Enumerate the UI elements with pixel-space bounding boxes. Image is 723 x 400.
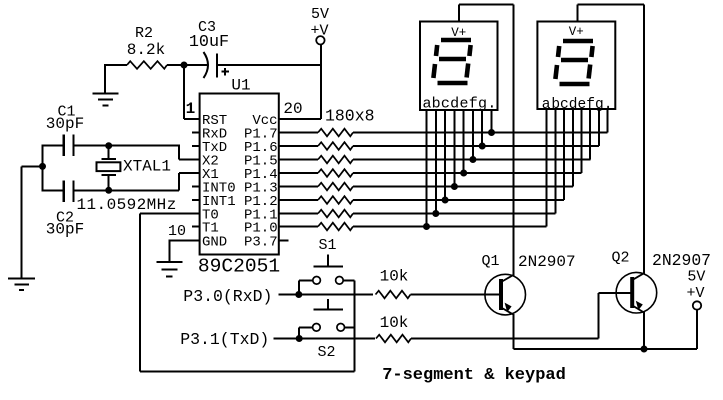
power terminal 5V bottom: [686, 269, 705, 310]
wire 5V to Vcc: [320, 45, 322, 120]
wire R2 left lead: [104, 64, 127, 66]
node junction f1: [469, 156, 476, 163]
svg-text:180x8: 180x8: [325, 107, 375, 126]
svg-text:10uF: 10uF: [189, 33, 229, 52]
svg-text:89C2051: 89C2051: [198, 256, 280, 278]
wire V+ loop display 2: [577, 5, 644, 274]
wire P1.1 stub: [279, 213, 318, 215]
wire display1 pin b: [435, 110, 437, 214]
wire P1.2 stub: [279, 199, 318, 201]
wire display2 pin e: [581, 109, 583, 173]
svg-text:8.2k: 8.2k: [127, 41, 165, 59]
wire segment bus P1.2: [353, 199, 564, 201]
ground (GND pin): [156, 262, 182, 277]
svg-text:10k: 10k: [380, 268, 409, 286]
wire C1 to X2: [74, 145, 179, 147]
wire GND pin to ground: [169, 240, 199, 242]
svg-text:e: e: [459, 96, 468, 113]
wire segment bus P1.3: [353, 186, 573, 188]
svg-text:30pF: 30pF: [46, 115, 84, 133]
svg-text:5V: 5V: [311, 6, 329, 23]
ground (crystal): [8, 279, 35, 291]
wire P1.5 stub: [279, 159, 318, 161]
wire display1 pin d: [453, 110, 455, 187]
wire display1 pin e: [463, 110, 465, 173]
svg-text:2N2907: 2N2907: [652, 251, 711, 270]
op chip U1 89C2051: [200, 94, 279, 255]
wire segment bus P1.6: [353, 145, 599, 147]
wire display2 pin c: [563, 109, 565, 200]
resistor 180 ohm row P1.1: [318, 210, 353, 218]
svg-text:d: d: [450, 96, 459, 113]
capacitor C1: [46, 104, 84, 156]
node junction c1: [442, 197, 449, 204]
power terminal 5V top: [310, 6, 329, 45]
wire to crystal ground: [22, 165, 43, 167]
svg-text:10k: 10k: [380, 314, 409, 332]
node crystal top: [105, 142, 112, 149]
wire display2 pin b: [554, 109, 556, 214]
wire display1 pin c: [444, 110, 446, 200]
svg-text:Q1: Q1: [481, 253, 499, 270]
svg-text:Q2: Q2: [611, 250, 629, 267]
wire R2 to C3: [167, 64, 208, 66]
svg-text:.: .: [487, 96, 496, 113]
node S1 to P3.0: [295, 291, 302, 298]
svg-text:2N2907: 2N2907: [518, 253, 576, 271]
wire reset to pin 1: [183, 65, 185, 119]
7-segment display DIS1: [420, 22, 498, 111]
switch S1: [299, 237, 355, 295]
svg-text:c: c: [441, 96, 450, 113]
svg-text:30pF: 30pF: [46, 221, 84, 239]
digit 8 display 1: [433, 40, 471, 83]
svg-text:GND: GND: [202, 234, 227, 250]
wire P1.3 stub: [279, 186, 318, 188]
wire display1 pin .: [491, 110, 493, 133]
wire V+ loop display 1: [459, 5, 514, 276]
node junction e1: [460, 170, 467, 177]
wire P1.6 stub: [279, 145, 318, 147]
resistor 180 ohm row P1.5: [318, 156, 353, 164]
wire C1 left: [43, 145, 64, 147]
svg-text:10: 10: [168, 223, 186, 240]
resistor R2: [127, 61, 167, 69]
wire C3 to 5V rail: [217, 64, 321, 66]
switch S2: [299, 299, 354, 361]
node junction g1: [479, 143, 486, 150]
resistor 180 ohm row P1.3: [318, 183, 353, 191]
wire R2 to ground: [104, 64, 106, 94]
resistor 180 ohm row P1.2: [318, 196, 353, 204]
svg-text:20: 20: [283, 100, 302, 118]
wire P1.7 stub: [279, 132, 318, 134]
svg-text:a: a: [423, 96, 432, 113]
wire display2 pin .: [607, 109, 609, 133]
wire T0 keypad loop: [140, 214, 354, 372]
svg-text:S1: S1: [318, 237, 336, 254]
node junction a1: [423, 223, 430, 230]
svg-text:5V: 5V: [687, 269, 705, 286]
wire display2 pin g: [598, 109, 600, 146]
svg-text:XTAL1: XTAL1: [123, 158, 171, 176]
svg-text:11.0592MHz: 11.0592MHz: [77, 196, 177, 214]
svg-text:g: g: [478, 96, 487, 113]
ground (R2 reset network): [93, 94, 119, 106]
resistor 180 ohm row P1.6: [318, 142, 353, 150]
wire display2 pin d: [572, 109, 574, 187]
wire P1.0 stub: [279, 226, 318, 228]
wire C2 to X1: [74, 189, 179, 191]
wire crystal left vertical: [42, 145, 44, 192]
svg-text:R2: R2: [135, 25, 153, 42]
wire P3.1 row: [274, 338, 376, 340]
node crystal bottom: [105, 187, 112, 194]
resistor 180 ohm row P1.0: [318, 223, 353, 231]
node junction d1: [451, 183, 458, 190]
wire P3.0 row: [278, 294, 373, 296]
resistor 180 ohm row P1.7: [318, 129, 353, 137]
crystal XTAL1: [77, 146, 177, 214]
svg-text:f: f: [469, 96, 478, 113]
wire segment bus P1.4: [353, 172, 582, 174]
wire segment bus P1.5: [353, 159, 590, 161]
wire display1 pin g: [481, 110, 483, 146]
pin stubs unconnected left: [192, 133, 200, 227]
svg-text:7-segment & keypad: 7-segment & keypad: [382, 366, 566, 385]
svg-text:P3.1(TxD): P3.1(TxD): [180, 330, 269, 349]
digit 8 display 2: [555, 41, 593, 84]
transistor Q2: [611, 250, 711, 314]
svg-text:S2: S2: [317, 344, 335, 361]
wire segment bus P1.1: [353, 213, 555, 215]
svg-text:b: b: [432, 96, 441, 113]
svg-text:P3.0(RxD): P3.0(RxD): [183, 287, 272, 306]
capacitor C2: [46, 181, 84, 239]
wire P1.4 stub: [279, 172, 318, 174]
svg-text:1: 1: [186, 100, 196, 118]
wire display1 pin f: [472, 110, 474, 160]
wire segment bus P1.7: [353, 132, 608, 134]
wire emitter rail: [513, 348, 697, 350]
svg-text:V+: V+: [569, 25, 584, 39]
node junction .1: [488, 129, 495, 136]
resistor 180 ohm row P1.4: [318, 169, 353, 177]
wire Vcc stub pin 20: [279, 118, 321, 120]
pin stub P3.7: [279, 240, 289, 242]
wire 10k to Q2 base: [411, 338, 599, 340]
wire C2 left: [43, 189, 64, 191]
node RST junction: [181, 62, 188, 69]
node junction b1: [432, 210, 439, 217]
node S2 to P3.1: [296, 335, 303, 342]
wire segment bus P1.0: [353, 226, 547, 228]
svg-text:+V: +V: [686, 285, 704, 302]
node emitter rail junction: [641, 346, 648, 353]
wire Q2 emitter: [643, 312, 645, 349]
svg-text:U1: U1: [231, 77, 250, 95]
node crystal ground tap: [39, 163, 46, 170]
wire display2 pin f: [589, 109, 591, 160]
capacitor C3: [189, 19, 229, 78]
wire Q1 emitter: [512, 314, 514, 349]
wire display2 pin a: [546, 109, 548, 227]
transistor Q1: [481, 253, 575, 315]
wire 10k to Q1 base: [411, 294, 500, 296]
7-segment display DIS2: [537, 22, 615, 110]
wire display1 pin a: [426, 110, 428, 227]
wire +V to rail: [696, 310, 698, 349]
svg-text:P3.7: P3.7: [244, 234, 278, 250]
